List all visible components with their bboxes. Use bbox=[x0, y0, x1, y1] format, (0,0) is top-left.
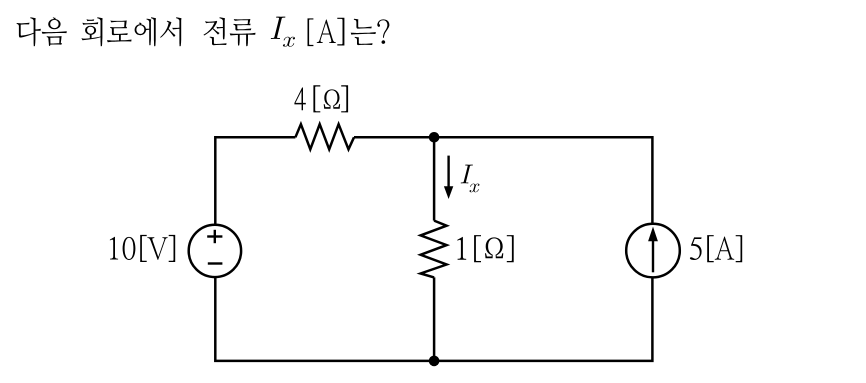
wire top-right corner section bbox=[354, 137, 652, 224]
resistor R2 zigzag bbox=[421, 221, 447, 278]
resistor R1 zigzag bbox=[295, 124, 354, 149]
V1 minus sign bbox=[208, 262, 223, 264]
title bracket ] bbox=[337, 18, 344, 46]
label R1 digit 4 bbox=[294, 88, 305, 111]
label Ix symbol I bbox=[461, 165, 473, 184]
I1 arrowhead bbox=[648, 227, 658, 242]
title bracket [ bbox=[308, 18, 314, 46]
wire bottom loop bbox=[215, 277, 652, 361]
title word 는 bbox=[351, 19, 376, 45]
Ix arrowhead bbox=[444, 186, 453, 199]
current source I1 circle bbox=[626, 224, 680, 278]
node junction bottom bbox=[429, 356, 440, 367]
label R1 bracket [ bbox=[313, 85, 320, 112]
title word 다음 bbox=[17, 17, 67, 46]
title math subscript x bbox=[283, 37, 295, 47]
wire top-left corner section bbox=[215, 137, 295, 225]
label R1 bracket ] bbox=[341, 85, 348, 112]
I1 arrow shaft bbox=[652, 240, 654, 273]
title question mark bbox=[377, 19, 389, 44]
title math symbol I bbox=[271, 17, 286, 39]
Ix arrow shaft bbox=[447, 156, 449, 188]
title word 전류 bbox=[204, 17, 256, 46]
label R2 Ω bbox=[485, 237, 503, 258]
node junction top bbox=[429, 132, 440, 143]
label R1 Ω bbox=[324, 89, 340, 108]
label I1 5[A] bbox=[690, 235, 742, 262]
label V1 10[V] bbox=[110, 235, 175, 262]
wire middle upper segment bbox=[433, 137, 436, 220]
title word 회로에서 bbox=[81, 17, 181, 46]
label Ix subscript x bbox=[470, 184, 480, 193]
label R2 bracket [ bbox=[474, 235, 481, 262]
voltage source V1 circle bbox=[189, 225, 241, 277]
label R2 bracket ] bbox=[507, 235, 514, 262]
label R2 digit 1 bbox=[457, 237, 466, 260]
wire middle lower segment bbox=[433, 277, 436, 361]
V1 plus sign vertical bbox=[214, 230, 216, 243]
V1 plus sign horizontal bbox=[207, 235, 222, 237]
title letter A bbox=[317, 20, 336, 44]
